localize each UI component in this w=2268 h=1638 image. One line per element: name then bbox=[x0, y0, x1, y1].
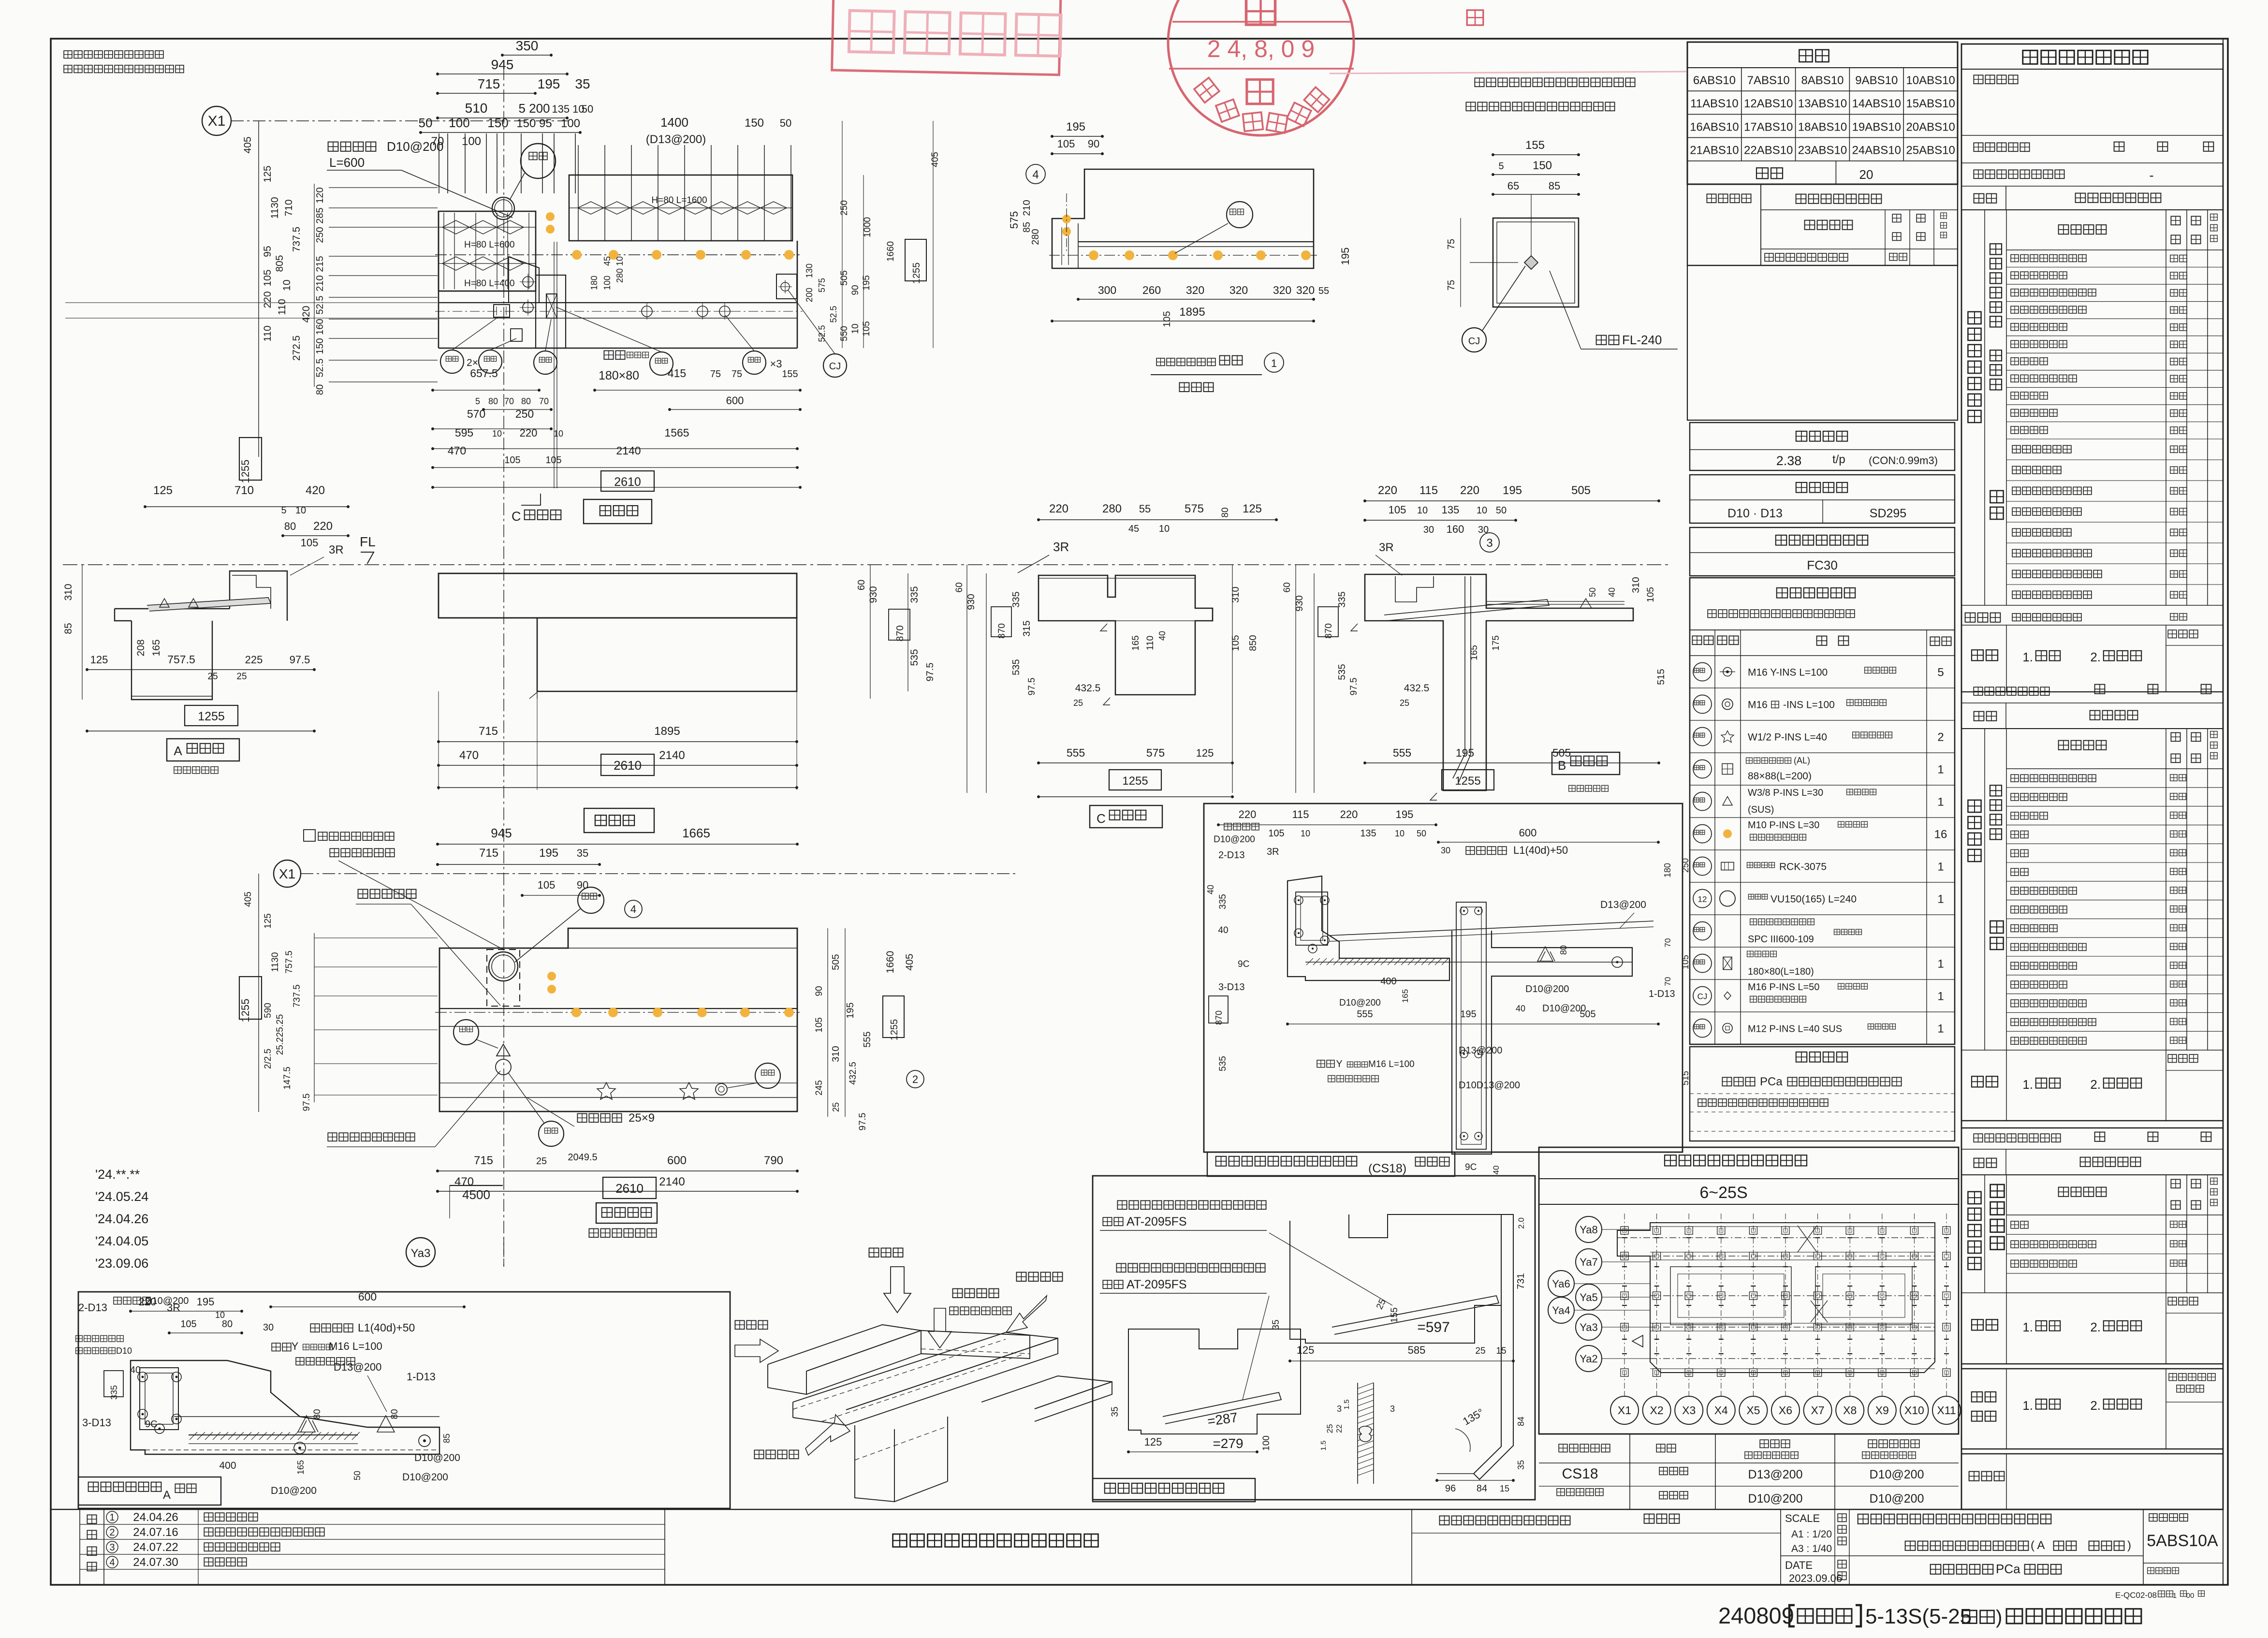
svg-text:1895: 1895 bbox=[1179, 306, 1205, 319]
svg-text:300: 300 bbox=[1098, 284, 1116, 296]
svg-text:3-D13: 3-D13 bbox=[1218, 982, 1244, 993]
project name cell bbox=[1858, 1514, 1869, 1524]
svg-text:335: 335 bbox=[109, 1385, 119, 1400]
svg-text:555: 555 bbox=[1357, 1009, 1373, 1020]
svg-text:200: 200 bbox=[805, 288, 814, 302]
svg-text:1-D13: 1-D13 bbox=[407, 1371, 436, 1383]
svg-text:220: 220 bbox=[262, 291, 273, 308]
svg-text:1: 1 bbox=[109, 1512, 115, 1523]
svg-text:135 10: 135 10 bbox=[552, 103, 584, 115]
key plan building outline bbox=[1617, 1223, 1935, 1373]
B-side right ledge lines bbox=[1486, 601, 1624, 602]
svg-text:805: 805 bbox=[274, 255, 285, 272]
svg-text:10: 10 bbox=[215, 1310, 225, 1320]
svg-text:2.: 2. bbox=[2090, 1320, 2101, 1334]
svg-text:D10@200: D10@200 bbox=[271, 1485, 317, 1496]
svg-text:25: 25 bbox=[1325, 1424, 1334, 1433]
svg-text:Ya5: Ya5 bbox=[1580, 1291, 1598, 1303]
section1 grid concrete/katawaku bbox=[1984, 210, 1985, 439]
svg-text:(D13@200): (D13@200) bbox=[646, 133, 706, 146]
svg-text:208: 208 bbox=[135, 639, 146, 656]
svg-text:1400: 1400 bbox=[660, 115, 688, 130]
svg-text:20: 20 bbox=[1859, 167, 1873, 182]
svg-text:420: 420 bbox=[306, 484, 325, 497]
drop wall caption strip bbox=[1207, 1152, 1455, 1176]
hatched bottom strip bbox=[189, 1434, 358, 1435]
rebar loop bbox=[140, 1368, 178, 1430]
svg-text:195: 195 bbox=[862, 275, 872, 291]
svg-text:535: 535 bbox=[1218, 1056, 1228, 1071]
svg-text:220: 220 bbox=[313, 520, 333, 533]
svg-text:3: 3 bbox=[1337, 1404, 1342, 1414]
svg-text:88×88(L=200): 88×88(L=200) bbox=[1748, 771, 1812, 782]
svg-text:40: 40 bbox=[1157, 631, 1167, 641]
svg-text:575: 575 bbox=[1146, 746, 1165, 759]
B-side dims left bbox=[1295, 565, 1296, 793]
top plan outline - left hatched block bbox=[439, 211, 536, 291]
B-side inner step details bbox=[1395, 576, 1434, 602]
svg-text:4500: 4500 bbox=[462, 1187, 490, 1202]
C-section outline bbox=[1039, 575, 1213, 695]
svg-text:105: 105 bbox=[1230, 635, 1241, 651]
svg-text:210: 210 bbox=[315, 275, 325, 291]
svg-text:25: 25 bbox=[831, 1102, 841, 1112]
svg-text:Y: Y bbox=[1336, 1059, 1342, 1069]
svg-text:150: 150 bbox=[315, 338, 325, 354]
svg-text:250: 250 bbox=[515, 408, 534, 420]
left dim ladder of top plan bbox=[329, 187, 438, 188]
svg-text:165: 165 bbox=[1469, 645, 1479, 660]
vertical labels section2 bbox=[1968, 800, 1981, 812]
svg-text:90: 90 bbox=[1088, 138, 1099, 150]
svg-text:100: 100 bbox=[602, 276, 612, 290]
svg-text:X9: X9 bbox=[1875, 1404, 1889, 1417]
svg-text:24.07.22: 24.07.22 bbox=[133, 1541, 178, 1554]
svg-text:3R: 3R bbox=[167, 1302, 180, 1314]
vertical rebar sticks upper band bbox=[578, 145, 579, 241]
gasket note texts upper bbox=[1117, 1200, 1127, 1209]
hantei block 1 bbox=[2006, 625, 2007, 692]
svg-text:D10@200: D10@200 bbox=[402, 1472, 448, 1483]
svg-text:17ABS10: 17ABS10 bbox=[1744, 120, 1793, 133]
svg-text:6~25S: 6~25S bbox=[1699, 1184, 1747, 1202]
svg-text:2/2.5: 2/2.5 bbox=[263, 1049, 273, 1069]
svg-text:X2: X2 bbox=[1650, 1404, 1664, 1417]
svg-text:52.5: 52.5 bbox=[817, 325, 827, 342]
drawing number cell bbox=[2143, 1509, 2144, 1584]
svg-text:3R: 3R bbox=[1053, 540, 1069, 554]
svg-text:1: 1 bbox=[2173, 1592, 2177, 1600]
svg-text:1895: 1895 bbox=[654, 725, 680, 738]
svg-text:M16 L=100: M16 L=100 bbox=[329, 1340, 382, 1352]
labels tesuri cotter 180x80 bbox=[604, 351, 613, 359]
svg-text:65: 65 bbox=[1507, 180, 1519, 192]
svg-text:10: 10 bbox=[281, 279, 293, 291]
sougou hantei block bbox=[1961, 1368, 2223, 1369]
svg-text:AT-2095FS: AT-2095FS bbox=[1127, 1215, 1187, 1228]
svg-text:X1: X1 bbox=[1618, 1404, 1631, 1417]
bed plan inner lines bbox=[568, 948, 797, 949]
svg-text:1.5: 1.5 bbox=[1319, 1441, 1328, 1451]
svg-text:50: 50 bbox=[1417, 829, 1426, 838]
svg-text:105: 105 bbox=[1389, 504, 1406, 516]
svg-text:M16 L=100: M16 L=100 bbox=[1368, 1059, 1415, 1069]
boxed 1255 left bbox=[239, 438, 262, 480]
sleeve circle with dashed box bbox=[489, 952, 518, 981]
note: secondary fall-prevention insert bbox=[1475, 78, 1484, 87]
svg-text:10: 10 bbox=[1417, 505, 1428, 516]
svg-text:X3: X3 bbox=[1682, 1404, 1696, 1417]
svg-text:22ABS10: 22ABS10 bbox=[1744, 144, 1793, 157]
svg-text:155: 155 bbox=[782, 369, 798, 380]
svg-text:80: 80 bbox=[390, 1409, 400, 1419]
svg-text:1255: 1255 bbox=[1122, 775, 1148, 788]
svg-text:55: 55 bbox=[1318, 286, 1329, 296]
svg-text:50: 50 bbox=[780, 117, 791, 129]
svg-text:320: 320 bbox=[1186, 284, 1204, 296]
svg-text:515: 515 bbox=[1656, 669, 1667, 685]
svg-text:220: 220 bbox=[1239, 808, 1257, 820]
svg-text:225: 225 bbox=[245, 654, 263, 666]
B-side corner arrows bbox=[1351, 624, 1358, 631]
svg-text:1130: 1130 bbox=[269, 197, 280, 219]
svg-text:DATE: DATE bbox=[1785, 1559, 1813, 1571]
svg-text:100: 100 bbox=[462, 135, 481, 148]
svg-text:870: 870 bbox=[997, 623, 1007, 639]
svg-text:2-D13: 2-D13 bbox=[1218, 850, 1244, 861]
svg-text:2: 2 bbox=[109, 1527, 115, 1538]
revision table bbox=[79, 1509, 80, 1584]
svg-text:2140: 2140 bbox=[616, 444, 641, 457]
svg-text:35: 35 bbox=[1271, 1319, 1281, 1330]
table itaname (panel names) bbox=[1687, 42, 1958, 184]
bed caption bbox=[596, 1203, 657, 1223]
svg-text:595: 595 bbox=[455, 426, 473, 439]
svg-text:10ABS10: 10ABS10 bbox=[1906, 74, 1955, 87]
svg-text:2140: 2140 bbox=[659, 749, 685, 762]
svg-text:X11: X11 bbox=[1937, 1404, 1956, 1417]
svg-text:(CON:0.99m3): (CON:0.99m3) bbox=[1869, 454, 1938, 467]
svg-text:175: 175 bbox=[1491, 635, 1501, 651]
svg-text:1: 1 bbox=[1937, 861, 1944, 874]
key plan inner structure bbox=[1670, 1267, 1791, 1325]
katawaku section rows bbox=[1984, 439, 1985, 605]
bikou empty extension box bbox=[1687, 265, 1958, 420]
svg-text:L1(40d)+50: L1(40d)+50 bbox=[358, 1321, 415, 1334]
svg-text:60: 60 bbox=[856, 580, 867, 590]
svg-text:1660: 1660 bbox=[885, 951, 896, 974]
svg-text:432.5: 432.5 bbox=[848, 1062, 858, 1085]
svg-text:70: 70 bbox=[1663, 938, 1672, 948]
svg-text:35: 35 bbox=[1516, 1460, 1526, 1470]
svg-text:60: 60 bbox=[1282, 582, 1292, 592]
svg-text:105: 105 bbox=[538, 879, 556, 891]
leader hon2 bbox=[1227, 202, 1253, 228]
svg-text:1: 1 bbox=[1937, 796, 1944, 809]
bed right dim stack bbox=[827, 928, 828, 1117]
svg-text:1255: 1255 bbox=[198, 710, 225, 723]
svg-text:260: 260 bbox=[1142, 284, 1161, 296]
svg-text:PCa: PCa bbox=[1996, 1562, 2020, 1576]
svg-text:8ABS10: 8ABS10 bbox=[1801, 74, 1844, 87]
svg-text:52.5: 52.5 bbox=[315, 359, 325, 378]
svg-text:350: 350 bbox=[516, 38, 539, 53]
svg-text:105: 105 bbox=[1057, 138, 1075, 150]
svg-text:M12 P-INS L=40 SUS: M12 P-INS L=40 SUS bbox=[1748, 1024, 1842, 1035]
svg-text:3R: 3R bbox=[1267, 847, 1279, 857]
svg-text:D10@200: D10@200 bbox=[1870, 1492, 1924, 1506]
svg-text:575: 575 bbox=[1008, 211, 1020, 229]
svg-text:D13@200: D13@200 bbox=[1459, 1045, 1502, 1056]
svg-text:85: 85 bbox=[442, 1433, 452, 1443]
gasket detail box bbox=[1093, 1176, 1535, 1500]
svg-text:90: 90 bbox=[577, 879, 588, 891]
vertical dashdot centreline long bbox=[503, 68, 504, 1267]
svg-text:90: 90 bbox=[850, 285, 861, 295]
drop wall vertical rebar loop bbox=[1456, 902, 1486, 1149]
svg-text:285: 285 bbox=[315, 207, 325, 223]
svg-text:3: 3 bbox=[1486, 537, 1492, 550]
top plan dimension ladder bbox=[502, 55, 551, 56]
notch label bbox=[1596, 336, 1607, 345]
svg-text:2610: 2610 bbox=[614, 475, 641, 489]
svg-text:2-D13: 2-D13 bbox=[78, 1302, 107, 1314]
svg-text:320: 320 bbox=[1296, 284, 1315, 296]
svg-text:=279: =279 bbox=[1213, 1436, 1243, 1451]
caption joutanzu box bbox=[584, 499, 652, 524]
svg-text:215: 215 bbox=[315, 256, 325, 272]
svg-text:W1/2 P-INS L=40: W1/2 P-INS L=40 bbox=[1748, 732, 1827, 743]
drop wall box bbox=[1204, 804, 1683, 1152]
svg-text:2.: 2. bbox=[2090, 1398, 2101, 1413]
svg-text:2610: 2610 bbox=[615, 1181, 644, 1196]
svg-text:84: 84 bbox=[1516, 1417, 1526, 1426]
svg-text:250: 250 bbox=[839, 200, 849, 216]
svg-text:20ABS10: 20ABS10 bbox=[1906, 120, 1955, 133]
svg-text:165: 165 bbox=[1131, 635, 1141, 651]
svg-text:50: 50 bbox=[1496, 505, 1507, 516]
svg-text:195: 195 bbox=[1460, 1009, 1476, 1020]
svg-text:400: 400 bbox=[1380, 976, 1396, 987]
stamp round received date bbox=[1168, 0, 1354, 135]
svg-text:155: 155 bbox=[1390, 1307, 1400, 1323]
svg-text:1255: 1255 bbox=[239, 999, 251, 1023]
svg-text:210: 210 bbox=[1022, 200, 1032, 216]
architect cell bbox=[1411, 1509, 1412, 1584]
svg-text:): ) bbox=[2127, 1539, 2131, 1552]
svg-text:M16: M16 bbox=[1748, 700, 1768, 711]
svg-text:80: 80 bbox=[1559, 945, 1568, 955]
svg-text:2.38: 2.38 bbox=[1776, 453, 1802, 468]
svg-text:X8: X8 bbox=[1843, 1404, 1857, 1417]
svg-text:10: 10 bbox=[1477, 505, 1487, 516]
member weight table bbox=[1690, 423, 1955, 470]
X grid circles bbox=[1610, 1396, 1639, 1424]
sash drawing caption bbox=[1156, 358, 1165, 366]
svg-text:60: 60 bbox=[954, 582, 965, 592]
svg-text:9ABS10: 9ABS10 bbox=[1855, 74, 1898, 87]
svg-text:125: 125 bbox=[1297, 1344, 1315, 1356]
svg-text:715: 715 bbox=[478, 76, 500, 91]
svg-text:4: 4 bbox=[1032, 168, 1039, 181]
sash insert inner lines bbox=[1078, 223, 1079, 268]
svg-text:AT-2095FS: AT-2095FS bbox=[1127, 1278, 1187, 1291]
svg-text:535: 535 bbox=[1337, 664, 1347, 680]
svg-text:30: 30 bbox=[1478, 525, 1489, 535]
gasket piece bottom right 135deg bbox=[1437, 1473, 1474, 1474]
svg-text:105: 105 bbox=[301, 537, 319, 549]
bed plan outline bbox=[439, 928, 797, 1111]
A-side boxed 1255 bbox=[185, 705, 238, 726]
gasket piece upper right bbox=[1290, 1214, 1501, 1343]
centre dash-dot with inserts bbox=[435, 254, 803, 255]
svg-text:1: 1 bbox=[1937, 893, 1944, 906]
svg-text:320: 320 bbox=[1229, 284, 1248, 296]
svg-text:25.225.25: 25.225.25 bbox=[275, 1014, 285, 1055]
svg-text:55: 55 bbox=[1139, 503, 1151, 515]
svg-text:80: 80 bbox=[284, 520, 296, 532]
svg-text:930: 930 bbox=[966, 594, 977, 610]
svg-text:23ABS10: 23ABS10 bbox=[1798, 144, 1847, 157]
svg-text:405: 405 bbox=[243, 892, 253, 907]
svg-text:420: 420 bbox=[301, 306, 312, 322]
gasket slanted bar upper bbox=[1332, 1296, 1499, 1334]
drop wall slab rebar lines bbox=[1330, 921, 1653, 936]
svg-text:Y: Y bbox=[292, 1340, 299, 1352]
svg-text:24ABS10: 24ABS10 bbox=[1852, 144, 1901, 157]
svg-text:1000: 1000 bbox=[863, 217, 873, 237]
svg-text:M16 Y-INS L=100: M16 Y-INS L=100 bbox=[1748, 667, 1828, 678]
svg-text:3: 3 bbox=[109, 1542, 115, 1553]
svg-text:24.07.30: 24.07.30 bbox=[133, 1556, 178, 1569]
bikou sub-table bbox=[1687, 184, 1958, 265]
svg-text:7ABS10: 7ABS10 bbox=[1747, 74, 1790, 87]
svg-text:715: 715 bbox=[479, 847, 498, 860]
svg-text:110: 110 bbox=[277, 299, 288, 315]
svg-text:Ya3: Ya3 bbox=[1580, 1321, 1598, 1333]
svg-text:5: 5 bbox=[1498, 161, 1504, 172]
svg-text:95: 95 bbox=[262, 246, 273, 257]
svg-text:120: 120 bbox=[315, 187, 325, 203]
rebar spec table bbox=[1690, 475, 1955, 523]
svg-text:SD295: SD295 bbox=[1870, 507, 1906, 520]
svg-text:2.0: 2.0 bbox=[1517, 1217, 1526, 1229]
svg-text:97.5: 97.5 bbox=[302, 1094, 312, 1111]
svg-text:715: 715 bbox=[474, 1154, 493, 1167]
svg-text:405: 405 bbox=[242, 136, 253, 153]
4500 dim and Ya3 bbox=[450, 1185, 503, 1186]
sash dash-dot and orange inserts bbox=[1049, 255, 1320, 256]
caption C-section cut bbox=[521, 494, 541, 505]
hantei block 2 bbox=[1961, 1050, 2223, 1051]
svg-text:930: 930 bbox=[868, 586, 879, 603]
bottom band top line bbox=[51, 1509, 2223, 1510]
svg-text:5 200: 5 200 bbox=[518, 101, 550, 116]
svg-text:335: 335 bbox=[1337, 591, 1347, 607]
key plan column grid vertical dashes bbox=[1624, 1214, 1625, 1392]
svg-text:D13@200: D13@200 bbox=[1600, 899, 1646, 910]
gasket caption box bbox=[1093, 1478, 1255, 1502]
svg-text:105: 105 bbox=[862, 321, 872, 336]
hon3 mark bbox=[716, 1083, 727, 1095]
svg-text:165: 165 bbox=[1401, 989, 1410, 1003]
svg-text:M16 P-INS L=50: M16 P-INS L=50 bbox=[1748, 982, 1819, 993]
svg-text:737.5: 737.5 bbox=[291, 227, 302, 252]
svg-text:240809: 240809 bbox=[1718, 1603, 1794, 1628]
svg-text:13ABS10: 13ABS10 bbox=[1798, 97, 1847, 110]
gasket piece lower left bbox=[1128, 1329, 1301, 1434]
svg-text:870: 870 bbox=[1324, 623, 1334, 639]
svg-text:2049.5: 2049.5 bbox=[568, 1152, 597, 1163]
svg-text:D10 · D13: D10 · D13 bbox=[1727, 507, 1783, 520]
svg-text:2140: 2140 bbox=[659, 1175, 685, 1188]
rebar section labels left bbox=[114, 1297, 121, 1304]
svg-text:710: 710 bbox=[234, 484, 254, 497]
svg-text:5: 5 bbox=[1937, 666, 1944, 679]
key plan column stubs bbox=[1621, 1227, 1628, 1234]
svg-text:22: 22 bbox=[1335, 1424, 1344, 1433]
key plan arrow marker bbox=[1632, 1335, 1643, 1347]
elevation caption box bbox=[584, 808, 654, 833]
A-side small truss marks bbox=[160, 599, 198, 607]
svg-text:D10@200: D10@200 bbox=[1214, 834, 1255, 845]
insert crosshairs in plan bbox=[523, 277, 533, 287]
svg-text:930: 930 bbox=[1294, 595, 1305, 611]
svg-text:135: 135 bbox=[1360, 828, 1376, 839]
svg-text:25: 25 bbox=[236, 672, 247, 682]
svg-text:FL-240: FL-240 bbox=[1622, 333, 1662, 347]
hatch diamonds upper band bbox=[569, 207, 792, 208]
svg-text:D10@200: D10@200 bbox=[387, 139, 443, 154]
svg-text:25: 25 bbox=[1475, 1346, 1485, 1356]
svg-text:45: 45 bbox=[602, 256, 612, 266]
svg-text:110: 110 bbox=[1145, 636, 1156, 650]
stamp fragment top right bbox=[1467, 10, 1483, 25]
quality table outer bbox=[1961, 44, 2223, 1509]
svg-text:D10D13@200: D10D13@200 bbox=[1459, 1080, 1520, 1091]
svg-text:85: 85 bbox=[1549, 180, 1560, 192]
top plan outline - upper band (window strip) bbox=[569, 175, 792, 241]
FL marker triangle bbox=[361, 552, 374, 564]
svg-text:555: 555 bbox=[1393, 746, 1411, 759]
svg-text:D13@200: D13@200 bbox=[334, 1361, 381, 1373]
svg-text:H=80 L=1600: H=80 L=1600 bbox=[651, 195, 707, 205]
svg-text:=287: =287 bbox=[1206, 1410, 1239, 1429]
svg-text:220: 220 bbox=[1340, 808, 1358, 820]
svg-text:1: 1 bbox=[1937, 763, 1944, 776]
svg-text:125: 125 bbox=[262, 165, 273, 182]
svg-text:85: 85 bbox=[63, 623, 74, 634]
svg-text:40: 40 bbox=[1607, 587, 1617, 597]
svg-text:A: A bbox=[174, 744, 182, 758]
svg-text:280: 280 bbox=[1030, 229, 1041, 245]
slab spec table bbox=[1539, 1433, 1959, 1434]
svg-text:X10: X10 bbox=[1904, 1404, 1924, 1417]
svg-text:150: 150 bbox=[745, 117, 764, 130]
hon1 triangle + dashes bbox=[497, 1044, 510, 1056]
svg-text:100: 100 bbox=[1261, 1435, 1272, 1451]
top plan right dim stack bbox=[842, 121, 843, 348]
embedded parts list table bbox=[1690, 578, 1955, 1044]
sash insert drawing outline bbox=[1052, 169, 1314, 268]
svg-text:25: 25 bbox=[1400, 698, 1409, 708]
svg-text:W3/8 P-INS L=30: W3/8 P-INS L=30 bbox=[1748, 788, 1823, 798]
notch insert diamond bbox=[1524, 256, 1538, 269]
bed leader texts bbox=[358, 890, 368, 899]
svg-text:195: 195 bbox=[1339, 248, 1351, 265]
sleeve double circle bbox=[492, 197, 514, 219]
svg-text:250: 250 bbox=[315, 227, 325, 243]
